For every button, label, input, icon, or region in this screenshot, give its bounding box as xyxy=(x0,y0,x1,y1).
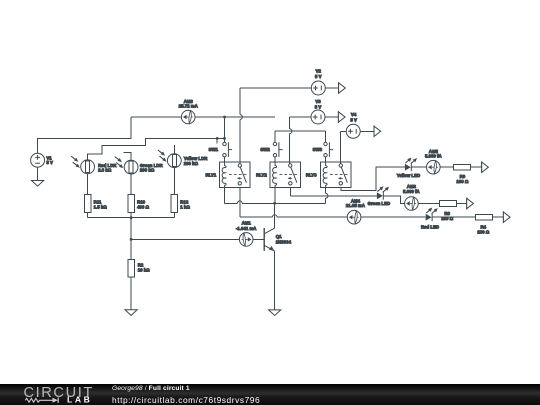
svg-text:RLY2: RLY2 xyxy=(256,172,267,177)
wire R10 to rail xyxy=(130,212,132,217)
wire RLY2 switch bottom down xyxy=(289,187,291,195)
wire SW1 to RLY1 coil xyxy=(224,157,226,162)
ammeter AM1 xyxy=(239,233,253,247)
voltage source V2 xyxy=(311,81,325,95)
wire AM1 to Q1 base xyxy=(253,238,264,240)
wire RLY3 coil bottom down with hop xyxy=(325,187,327,203)
resistor R2 xyxy=(128,259,135,277)
ground below R2 xyxy=(125,310,137,316)
wire Red LDR to R11 xyxy=(87,174,89,195)
wire RLY1 coil bottom down xyxy=(224,187,226,203)
wire V4 drop to RLY3 common xyxy=(339,131,341,164)
flag net V2 xyxy=(338,82,340,94)
resistor R9 xyxy=(454,164,471,170)
wire AM3 branch left xyxy=(131,116,182,118)
resistor R10 xyxy=(128,194,135,212)
svg-text:200 Ω: 200 Ω xyxy=(477,230,489,235)
CircuitLab logo xyxy=(0,384,110,405)
relay RLY3 xyxy=(321,162,351,188)
diode Red LED xyxy=(426,214,432,221)
svg-text:100 Ω: 100 Ω xyxy=(456,179,468,184)
svg-text:100 Ω: 100 Ω xyxy=(441,216,453,221)
wire RLY1 switch bottom down xyxy=(239,187,241,217)
wire V2 to RLY1 common upper xyxy=(240,87,311,89)
junction tap to AM1 xyxy=(130,238,133,241)
switch SW1 xyxy=(223,142,226,145)
svg-text:200 kΩ: 200 kΩ xyxy=(184,161,199,166)
relay RLY1 xyxy=(220,162,250,188)
wire Q1 collector up xyxy=(274,203,276,228)
relay RLY2 xyxy=(270,162,300,188)
wire V4 to RLY3 common upper xyxy=(340,130,346,132)
wire AM3 branch right xyxy=(195,116,275,118)
wire RLY2 coil bottom down xyxy=(274,187,276,203)
svg-text:5 V: 5 V xyxy=(315,104,322,109)
wire tap to AM1 xyxy=(131,238,239,240)
svg-text:1 kΩ: 1 kΩ xyxy=(180,204,190,209)
wire RLY3 switch bottom to yellow row xyxy=(341,167,405,190)
wire SW2 to SW3 link xyxy=(275,130,326,132)
wire rail down to R2 xyxy=(130,218,132,260)
ground below V1 xyxy=(32,181,44,187)
flag net V4 xyxy=(373,126,375,138)
photoresistor Green LDR xyxy=(124,160,138,174)
ammeter AM2 xyxy=(405,197,419,211)
wire R4 to flag xyxy=(493,216,504,218)
wire Yellow LDR to R12 xyxy=(173,168,175,195)
wire R6 to flag xyxy=(457,203,467,205)
wire Q1 emitter to ground xyxy=(274,251,276,310)
ammeter AM5 xyxy=(427,160,441,174)
svg-text:5.000 fA: 5.000 fA xyxy=(425,154,443,159)
wire R11 to rail xyxy=(87,212,89,217)
wire red row to AM4 with hop over collector xyxy=(240,216,347,218)
wire V1 ground lead xyxy=(37,167,39,180)
flag net V3 xyxy=(337,111,339,123)
wire R12 to rail xyxy=(173,212,175,217)
flag net R6 out xyxy=(466,198,468,210)
junction staircase meets SW1 drop xyxy=(223,137,226,140)
voltage source V1 xyxy=(31,153,45,167)
wire V1 top to AM3 net xyxy=(38,117,131,153)
wire AM5 to R9 xyxy=(440,166,454,168)
wire SW2 top up xyxy=(274,131,276,142)
stub wire Green LDR top xyxy=(123,153,131,161)
ammeter AM4 xyxy=(347,210,361,224)
flag net R4 out xyxy=(502,211,504,223)
svg-text:Yellow LED: Yellow LED xyxy=(397,173,420,178)
svg-text:-1.041 mA: -1.041 mA xyxy=(236,226,257,231)
wire AM2 to R6 xyxy=(418,203,439,205)
svg-text:5 V: 5 V xyxy=(46,160,53,165)
svg-text:400 Ω: 400 Ω xyxy=(137,204,149,209)
junction AM3 wire to SW1 xyxy=(223,116,226,119)
svg-text:200 kΩ: 200 kΩ xyxy=(140,167,155,172)
wire V3 to flag xyxy=(325,116,338,118)
photoresistor Red LDR xyxy=(81,160,95,174)
wire V4 to flag xyxy=(360,130,374,132)
wire AM4 to Red LED xyxy=(361,216,426,218)
switch SW2 xyxy=(273,142,276,145)
svg-text:SW1: SW1 xyxy=(209,147,219,152)
svg-text:LAB: LAB xyxy=(67,394,92,404)
svg-text:5 V: 5 V xyxy=(350,118,357,123)
svg-text:Red LED: Red LED xyxy=(421,225,439,230)
diode Yellow LED xyxy=(405,164,411,171)
flag net R9 out xyxy=(481,161,483,173)
stub wire below junction xyxy=(216,138,218,143)
svg-text:V4: V4 xyxy=(351,112,357,117)
wire V3 drop to RLY2 common xyxy=(289,117,291,164)
voltage source V4 xyxy=(346,124,360,138)
wire coil common line with hop over RLY1 switch drop xyxy=(225,202,275,204)
stub wire Yellow LDR top xyxy=(173,145,175,154)
wire green row to Green LED with hop over RLY3 coil xyxy=(290,195,377,197)
svg-text:2.3 kΩ: 2.3 kΩ xyxy=(98,168,112,173)
svg-text:10 kΩ: 10 kΩ xyxy=(138,268,150,273)
resistor R12 xyxy=(171,194,178,212)
wire Red LDR top staircase xyxy=(88,138,225,160)
svg-text:R4: R4 xyxy=(481,224,487,229)
junction coil line Q1 collector RLY2 coil xyxy=(273,202,276,205)
wire down to SW1 xyxy=(224,117,226,142)
wire SW3 to RLY3 coil xyxy=(325,157,327,162)
transistor Q1 xyxy=(263,228,265,251)
svg-text:Green LED: Green LED xyxy=(368,201,390,206)
diode Green LED xyxy=(377,192,383,199)
svg-text:5 V: 5 V xyxy=(315,74,322,79)
photoresistor Yellow LDR xyxy=(167,154,181,168)
svg-text:2N3904: 2N3904 xyxy=(276,239,292,244)
ground below Q1 xyxy=(269,310,281,316)
resistor R4 xyxy=(476,214,493,220)
svg-text:RLY1: RLY1 xyxy=(205,172,216,177)
voltage source V3 xyxy=(311,110,325,124)
svg-text:SW3: SW3 xyxy=(313,147,323,152)
junction rail to R2 xyxy=(130,216,133,219)
wire SW3 top up xyxy=(325,131,327,142)
svg-text:RLY3: RLY3 xyxy=(306,172,317,177)
svg-text:1.5 kΩ: 1.5 kΩ xyxy=(94,204,108,209)
wire R9 to flag xyxy=(471,166,482,168)
wire Green LDR to R10 xyxy=(130,174,132,194)
resistor R6 xyxy=(440,201,457,207)
svg-text:V2: V2 xyxy=(316,68,322,73)
resistor R11 xyxy=(84,194,91,212)
svg-text:21.65 mA: 21.65 mA xyxy=(346,203,366,208)
wire V2 drop to RLY1 common xyxy=(239,88,241,164)
wire R2 to ground xyxy=(130,277,132,310)
svg-text:V3: V3 xyxy=(315,99,321,104)
svg-text:25.72 mA: 25.72 mA xyxy=(179,104,199,109)
wire Red LED to R4 xyxy=(432,216,476,218)
wire V2 to flag xyxy=(325,87,338,89)
wire Yellow LED to AM5 xyxy=(411,166,426,168)
wire SW2 to RLY2 coil xyxy=(274,157,276,162)
svg-text:SW2: SW2 xyxy=(260,147,270,152)
ammeter AM3 xyxy=(181,110,195,124)
svg-text:5.000 fA: 5.000 fA xyxy=(403,189,421,194)
junction stub on staircase xyxy=(216,137,219,140)
switch SW3 xyxy=(324,142,327,145)
wire V3 to RLY2 common upper xyxy=(290,116,312,118)
wire divider rail xyxy=(88,217,175,219)
wire Green LED to AM2 xyxy=(383,196,404,204)
wire coil line to RLY3 xyxy=(275,202,326,204)
